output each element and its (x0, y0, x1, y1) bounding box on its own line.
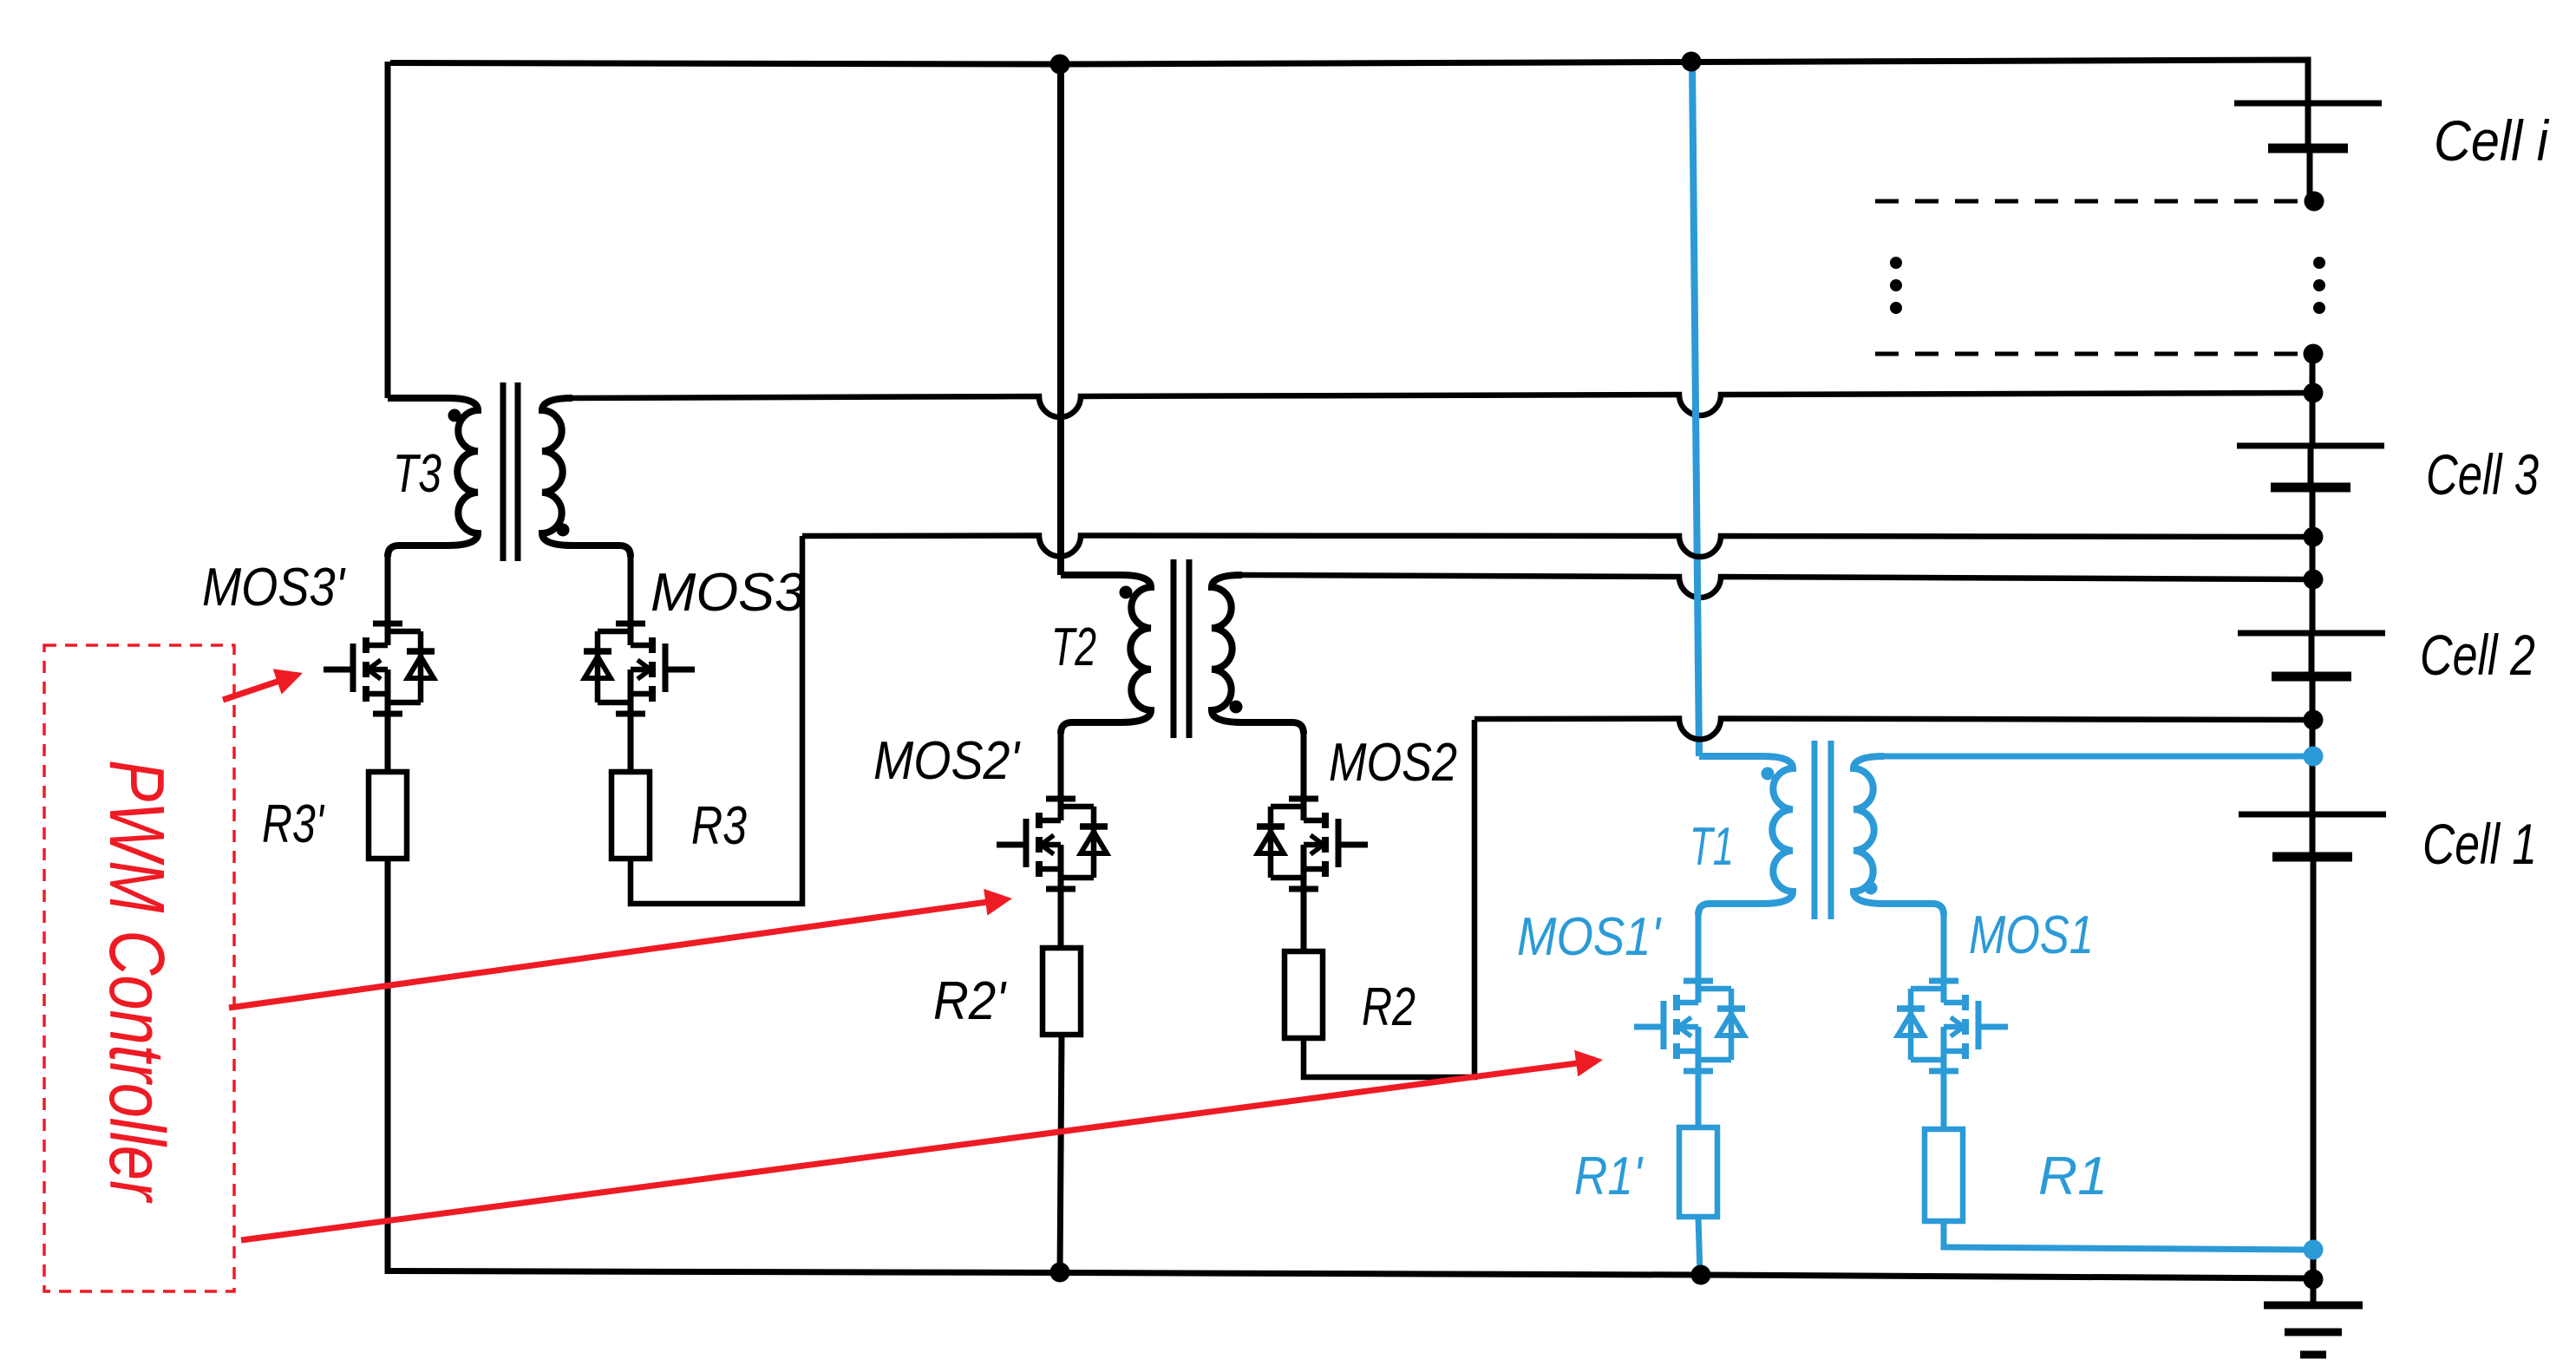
transformer T3 primary winding (388, 398, 478, 557)
wire: T3 secondary bottom lead down to MOS3 drain (628, 555, 634, 630)
svg-text:R3: R3 (691, 796, 747, 856)
resistor R3' (369, 772, 407, 859)
ground symbol (2264, 1302, 2363, 1310)
battery Cell 1 (2239, 812, 2386, 818)
svg-text:MOS3': MOS3' (202, 558, 346, 617)
transistor MOS1 (blue MOSFET with body diode) (1929, 978, 1958, 984)
wire: T1 secondary top lead to Cell1+ node (blue) (1884, 754, 2308, 760)
transistor MOS2 (MOSFET with body diode) (1289, 796, 1318, 802)
wire: T2 secondary top lead to Cell3-/Cell2+ node (hop over T1 feed) (1242, 575, 2308, 598)
wire: MOS2' source to R2' (1058, 889, 1064, 951)
wire: MOS1' source to R1' (blue) (1696, 1071, 1702, 1130)
transformer T3 core (500, 382, 507, 561)
dashed tap wire (lower) (1875, 352, 2298, 356)
node: R2 return junction dot (2304, 710, 2324, 730)
T1 secondary phase dot (blue) (1865, 882, 1878, 895)
node: R1 return junction dot (blue) (2304, 1240, 2324, 1260)
ellipsis dots (left column) (1890, 257, 1902, 269)
resistor R1' (blue) (1679, 1127, 1717, 1217)
T2 secondary phase dot (1230, 701, 1243, 714)
transformer T1 secondary winding (blue) (1854, 756, 1944, 915)
dashed tap wire (upper) (1875, 199, 2298, 204)
wire: R1' bottom to bottom bus (blue) (1698, 1217, 1700, 1273)
transformer T1 core (blue) (1812, 741, 1818, 919)
wire: T3 secondary top lead to Cell3/Cell2 node (hops over T2 feed and T1 feed) (572, 393, 2308, 417)
battery Cell 2 (2238, 630, 2385, 637)
wire: T1 primary bottom lead down to MOS1' drain (blue) (1696, 913, 1702, 988)
resistor R1 (blue) (1925, 1129, 1963, 1221)
svg-text:R3': R3' (262, 794, 325, 854)
node: tap above (dashed) cells, junction dot (2305, 192, 2324, 212)
transistor MOS2' (MOSFET with body diode) (1046, 796, 1076, 802)
node: T2 secondary top junction dot (2304, 570, 2324, 590)
wire: Cell i negative lead to tap node (2307, 148, 2313, 201)
resistor R3 (611, 772, 650, 859)
node: T1 secondary top junction dot (blue) (2304, 747, 2324, 767)
red control arrow to MOS3' gate (223, 680, 282, 700)
battery Cell 3 (2237, 443, 2384, 449)
T2 primary phase dot (1120, 586, 1133, 599)
svg-text:R1: R1 (2038, 1147, 2108, 1206)
transformer T2 core (1171, 559, 1177, 738)
resistor R2 (1285, 951, 1323, 1038)
T3 secondary phase dot (557, 524, 570, 537)
T3 primary phase dot (448, 409, 461, 422)
node: tap below dashed section, junction dot (2304, 344, 2324, 364)
svg-text:MOS2: MOS2 (1329, 733, 1457, 793)
wire: T2 secondary bottom lead down to MOS2 drain (1301, 732, 1307, 806)
battery Cell i (2234, 101, 2382, 107)
svg-text:R1': R1' (1574, 1147, 1644, 1206)
svg-text:T1: T1 (1690, 817, 1734, 877)
T1 primary phase dot (blue) (1762, 768, 1775, 781)
resistor R2' (1043, 948, 1081, 1035)
svg-text:R2': R2' (933, 971, 1007, 1031)
wire: T1 primary feed from top bus (blue) (1692, 62, 1699, 756)
wire: top bus from left rail to Cell i positive terminal (390, 60, 2308, 103)
wire: tap node down to Cell 3 (2310, 354, 2316, 446)
red control arrow to MOS1' gate (241, 1062, 1581, 1240)
node: bottom bus / R1' junction dot (1691, 1265, 1711, 1285)
node: bottom bus junction dot (2304, 1270, 2324, 1290)
wire: R2' bottom to bottom bus (1060, 1035, 1062, 1274)
svg-text:MOS1: MOS1 (1969, 905, 2094, 965)
svg-text:Cell 2: Cell 2 (2420, 623, 2535, 687)
wire: Cell 2 negative to Cell 1 positive (2310, 676, 2316, 814)
wire: MOS1 source to R1 (blue) (1941, 1071, 1947, 1132)
wire: R3 return path up to Cell3- node (hops over T2 feed and T1 feed) (631, 536, 802, 904)
wire: bottom bus (ground return) (388, 1271, 2313, 1279)
transformer T2 secondary winding (1212, 575, 1304, 734)
svg-text:MOS1': MOS1' (1517, 907, 1662, 967)
svg-text:MOS2': MOS2' (873, 731, 1021, 791)
svg-text:Cell 3: Cell 3 (2426, 442, 2539, 506)
node: top bus / T1 feed junction dot (1682, 52, 1702, 72)
wire: R2 return path to Cell2-/Cell1+ node (hop over T1 feed) (1304, 720, 1474, 1077)
red control arrow to MOS2' gate (229, 902, 991, 1009)
ellipsis dots (battery column) (2313, 257, 2325, 269)
svg-text:Cell 1: Cell 1 (2422, 812, 2537, 876)
svg-text:MOS3: MOS3 (651, 563, 805, 623)
wire: T1 secondary bottom lead down to MOS1 drain (blue) (1941, 913, 1947, 988)
wire: left rail (top bus down to T3 primary) (385, 62, 391, 398)
svg-text:R2: R2 (1362, 977, 1415, 1037)
node: bottom bus / R2' junction dot (1050, 1263, 1070, 1283)
wire: MOS3 source to R3 (628, 714, 634, 774)
transformer T1 primary winding (blue) (1698, 756, 1793, 915)
svg-text:T2: T2 (1051, 617, 1096, 677)
node: Cell3-/R3 return junction dot (2304, 527, 2324, 547)
wire: MOS2 source to R2 (1301, 889, 1307, 954)
wire: MOS3' source to R3' (385, 714, 391, 774)
svg-text:T3: T3 (393, 444, 441, 504)
node: T3 secondary return junction dot (2304, 383, 2324, 403)
wire: T2 primary bottom lead down to MOS2' drain (1058, 732, 1064, 806)
transformer T3 secondary winding (542, 398, 631, 557)
transistor MOS1' (blue MOSFET with body diode) (1684, 978, 1713, 984)
wire: Cell 1 negative down to ground (2311, 857, 2317, 1305)
svg-text:Cell i: Cell i (2434, 108, 2550, 173)
svg-text:PWM Controller: PWM Controller (93, 760, 180, 1203)
transistor MOS3' (MOSFET with body diode) (373, 621, 402, 627)
wire: Cell 3 negative to Cell 2 positive (2310, 487, 2316, 633)
wire: T2 primary feed from top bus (1057, 64, 1064, 575)
node: top bus / T2 feed junction dot (1050, 55, 1070, 75)
wire: R3' bottom to bottom bus (385, 859, 391, 1274)
transistor MOS3 (MOSFET with body diode) (616, 621, 645, 627)
transformer T2 primary winding (1061, 575, 1151, 734)
PWM Controller dashed box (44, 645, 234, 1291)
wire: T3 primary bottom lead down to MOS3' drain (385, 555, 391, 630)
wire: R1 bottom lead to Cell1- node (blue) (1944, 1221, 2308, 1250)
